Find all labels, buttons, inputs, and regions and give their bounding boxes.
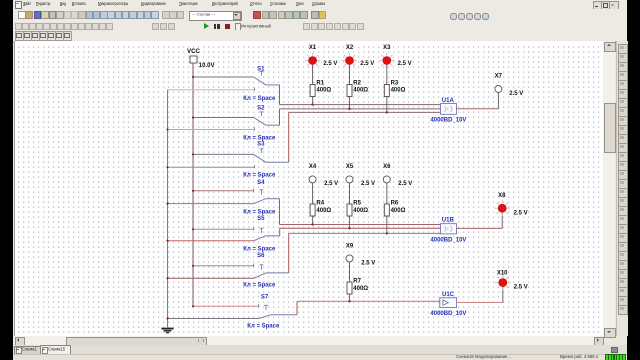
svg-text:2.5 V: 2.5 V: [514, 284, 528, 290]
node R7/wire: [348, 300, 350, 302]
node R6/wire C: [386, 232, 388, 234]
svg-text:2.5 V: 2.5 V: [398, 61, 412, 67]
svg-text:X9: X9: [346, 243, 354, 249]
svg-text:S1: S1: [257, 66, 265, 72]
probe lamp X2 (lit): [342, 45, 375, 69]
wire R1 bottom lead: [312, 96, 314, 104]
wire R2 bottom lead: [349, 96, 351, 108]
node S4 junction on ground bus: [166, 202, 168, 204]
svg-text:R6: R6: [391, 200, 399, 206]
wire X2 to resistor: [349, 64, 351, 84]
svg-text:2.5 V: 2.5 V: [509, 91, 523, 97]
wire R7 bottom lead: [349, 294, 351, 301]
svg-text:2.5 V: 2.5 V: [324, 181, 338, 187]
wire S7 output riser: [296, 301, 298, 315]
wire X9 to resistor: [349, 262, 351, 282]
svg-text:2.5 V: 2.5 V: [398, 181, 412, 187]
svg-text:400Ω: 400Ω: [391, 87, 406, 93]
svg-text:R5: R5: [353, 200, 361, 206]
wire X6 to resistor: [386, 183, 388, 204]
node S6 junction on VCC bus: [192, 264, 194, 266]
svg-text:X2: X2: [346, 45, 354, 51]
svg-text:X5: X5: [346, 164, 354, 170]
wire X4 to resistor: [312, 183, 314, 204]
svg-text:S2: S2: [257, 105, 265, 111]
probe lamp X3 (lit): [379, 45, 412, 69]
resistor R4 400Ω: [310, 200, 331, 216]
svg-text:S6: S6: [257, 253, 265, 259]
switch S4: [168, 188, 280, 203]
wire VCC vertical bus: [193, 63, 259, 306]
switch S5: [168, 227, 280, 241]
svg-text:S5: S5: [257, 216, 265, 222]
svg-text:2.5 V: 2.5 V: [323, 61, 337, 67]
switch S7: [168, 304, 298, 318]
wire R5 bottom lead: [349, 216, 351, 228]
switch S6: [168, 263, 289, 278]
svg-text:X8: X8: [498, 193, 506, 199]
wire U1A output: [457, 92, 499, 108]
svg-text:4000BD_10V: 4000BD_10V: [430, 117, 466, 123]
svg-text:S7: S7: [261, 294, 269, 300]
node R4/wire A: [311, 223, 313, 225]
svg-text:Кл = Space: Кл = Space: [247, 323, 280, 329]
probe lamp X1 (lit): [305, 45, 338, 69]
wire U1B input B: [280, 227, 441, 229]
wire R4 bottom lead: [312, 216, 314, 225]
svg-text:400Ω: 400Ω: [316, 208, 331, 214]
svg-text:Кл = Space: Кл = Space: [243, 246, 276, 252]
wire S1 output riser: [279, 85, 281, 105]
svg-text:S4: S4: [257, 180, 265, 186]
svg-text:R2: R2: [353, 80, 361, 86]
probe X9 (off): [346, 243, 375, 266]
wire S4 output riser: [279, 198, 281, 224]
svg-text:Кл = Space: Кл = Space: [243, 135, 276, 141]
op-amp U1C gate 4000BD inverter: [430, 292, 466, 317]
node R2/wire B: [348, 107, 350, 109]
svg-text:VCC: VCC: [187, 48, 201, 55]
wire R3 bottom lead: [386, 96, 388, 112]
wire S3 output riser: [288, 112, 290, 162]
svg-text:400Ω: 400Ω: [391, 208, 406, 214]
svg-text:X3: X3: [383, 45, 391, 51]
node S7 junction on ground bus: [166, 317, 168, 319]
svg-text:X6: X6: [383, 164, 391, 170]
wire U1B input A: [280, 223, 441, 225]
svg-text:S3: S3: [257, 141, 265, 147]
probe X6 (off): [383, 164, 412, 187]
wire S2 output riser: [279, 109, 281, 125]
node R1/wire A: [311, 103, 313, 105]
resistor R7 400Ω: [347, 278, 368, 293]
wire S6 output riser: [288, 233, 290, 273]
svg-text:R3: R3: [391, 80, 399, 86]
node S2 junction on VCC bus: [192, 116, 194, 118]
svg-text:400Ω: 400Ω: [353, 208, 368, 214]
node R5/wire B: [348, 227, 350, 229]
ground bus wire (left vertical): [167, 90, 169, 328]
svg-text:X4: X4: [309, 164, 317, 170]
svg-text:2.5 V: 2.5 V: [361, 260, 375, 266]
svg-text:Кл = Space: Кл = Space: [243, 172, 276, 178]
node S2 junction on ground bus: [166, 128, 168, 130]
resistor R3 400Ω: [384, 80, 405, 96]
svg-text:400Ω: 400Ω: [353, 286, 368, 292]
probe X5 (off): [346, 164, 375, 187]
svg-text:Кл = Space: Кл = Space: [243, 282, 276, 288]
probe lamp X8 (lit): [494, 193, 527, 216]
svg-text:R4: R4: [316, 200, 324, 206]
resistor R1 400Ω: [310, 80, 331, 96]
wire U1B input C: [289, 232, 441, 234]
wire U1A input C: [289, 111, 441, 113]
wire R6 bottom lead: [386, 216, 388, 233]
svg-text:X7: X7: [495, 73, 503, 79]
svg-text:400Ω: 400Ω: [353, 87, 368, 93]
node S7 junction on VCC bus: [192, 305, 194, 307]
svg-text:U1B: U1B: [442, 217, 455, 223]
svg-text:Кл = Space: Кл = Space: [243, 209, 276, 215]
wire X3 to resistor: [386, 64, 388, 84]
svg-text:R7: R7: [353, 278, 361, 284]
node S5 junction on ground bus: [166, 239, 168, 241]
wire X5 to resistor: [349, 183, 351, 204]
op-amp U1B gate 4000BD NOR: [430, 217, 466, 243]
svg-text:U1C: U1C: [442, 292, 455, 298]
resistor R2 400Ω: [347, 80, 368, 96]
wire U1A input B: [280, 108, 441, 110]
svg-text:2.5 V: 2.5 V: [514, 210, 528, 216]
node S4 junction on VCC bus: [192, 189, 194, 191]
wire U1C input: [297, 300, 440, 302]
power VCC: [187, 48, 215, 69]
wire S5 output riser: [279, 228, 281, 236]
resistor R6 400Ω: [384, 200, 405, 216]
resistor R5 400Ω: [347, 200, 368, 216]
probe lamp X10 (lit): [495, 270, 528, 290]
switch S2: [168, 112, 280, 131]
svg-text:2.5 V: 2.5 V: [361, 181, 375, 187]
svg-text:4000BD_10V: 4000BD_10V: [430, 237, 466, 243]
node S1 junction on VCC bus: [192, 76, 194, 78]
svg-text:Кл = Space: Кл = Space: [243, 96, 276, 102]
wire U1A input A: [280, 103, 441, 105]
wire U1B output: [457, 212, 503, 228]
switch S3: [168, 149, 289, 168]
probe X7 (off): [495, 73, 524, 97]
node S3 junction on VCC bus: [192, 153, 194, 155]
svg-text:400Ω: 400Ω: [316, 87, 331, 93]
wire U1C output: [457, 286, 503, 302]
svg-text:R1: R1: [316, 80, 324, 86]
node S3 junction on ground bus: [166, 166, 168, 168]
ground: [162, 328, 174, 332]
op-amp U1A gate 4000BD NOR: [430, 98, 466, 123]
svg-text:X1: X1: [309, 45, 317, 51]
wire X1 to resistor: [312, 64, 314, 84]
switch S1: [168, 71, 280, 90]
probe X4 (off): [309, 164, 338, 187]
node S5 junction on VCC bus: [192, 228, 194, 230]
node R3/wire C: [386, 111, 388, 113]
node S6 junction on ground bus: [166, 277, 168, 279]
svg-text:10.0V: 10.0V: [199, 63, 215, 69]
svg-text:2.5 V: 2.5 V: [360, 61, 374, 67]
svg-text:4000BD_10V: 4000BD_10V: [430, 311, 466, 317]
